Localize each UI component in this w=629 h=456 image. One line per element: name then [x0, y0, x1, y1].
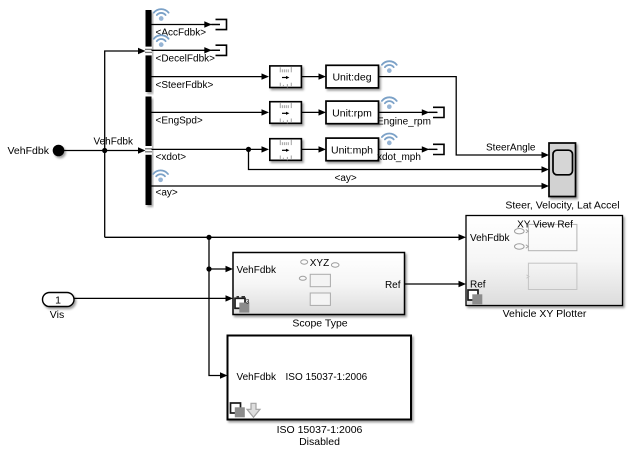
- svg-text:XY View Ref: XY View Ref: [517, 220, 573, 231]
- wire: junction down to ISO block input: [209, 269, 228, 379]
- unit conversion U1 Unit:deg: [326, 65, 379, 88]
- svg-text:VehFdbk: VehFdbk: [8, 145, 50, 157]
- wire: junction up to bus BS1 input: [105, 48, 146, 151]
- wire: Unit:rpm to terminator T3: [379, 109, 438, 115]
- svg-text:1: 1: [55, 295, 61, 307]
- wire: junction down to Scope Type input: [209, 237, 233, 272]
- inport 1 Vis: [43, 293, 75, 307]
- terminator T4: [429, 144, 444, 154]
- svg-text:Ref: Ref: [470, 279, 486, 290]
- svg-text:VehFdbk: VehFdbk: [470, 233, 510, 244]
- bus selector BS2 input port notch: [145, 146, 152, 155]
- ISO disabled-variant down arrow: [247, 403, 260, 417]
- svg-text:VehFdbk: VehFdbk: [94, 137, 134, 148]
- wifi badge on Unit:mph output: [382, 133, 397, 145]
- svg-text:Vis: Vis: [50, 309, 64, 321]
- svg-text:Unit:mph: Unit:mph: [331, 144, 373, 156]
- rate transition RT2: [270, 102, 302, 124]
- unit conversion U3 Unit:mph: [326, 138, 379, 161]
- wire: VehFdbk circle to bus BS2 input: [64, 147, 146, 153]
- scope block: Steer, Velocity, Lat Accel: [549, 143, 576, 197]
- junction on VehFdbk wire: [102, 148, 107, 153]
- unit conversion U2 Unit:rpm: [326, 101, 379, 124]
- subsystem: ISO 15037-1:2006 (disabled variant): [228, 336, 412, 420]
- wire: junction down to lower subsystems: [104, 151, 106, 238]
- svg-text:Scope Type: Scope Type: [292, 318, 347, 330]
- source node VehFdbk (black circle): [53, 145, 65, 157]
- wire: Unit:mph to terminator T4: [379, 146, 438, 152]
- svg-text:Disabled: Disabled: [299, 436, 340, 448]
- wifi badge on AccFdbk: [154, 9, 169, 21]
- wire: xdot branch to scope input 2: [249, 149, 550, 172]
- svg-text:SteerAngle: SteerAngle: [486, 142, 536, 153]
- wifi badge on Unit:rpm output: [382, 97, 397, 109]
- svg-text:Steer, Velocity, Lat Accel: Steer, Velocity, Lat Accel: [505, 200, 619, 212]
- wifi badge on Unit:deg output: [382, 61, 397, 73]
- wire: SteerFdbk from bus to rate transition RT1: [152, 73, 270, 79]
- wire: RT3 to Unit:mph: [302, 146, 326, 152]
- svg-text:<xdot>: <xdot>: [156, 152, 187, 163]
- Scope Type preview: XYZ and shapes: [299, 258, 339, 305]
- svg-text:Vehicle XY Plotter: Vehicle XY Plotter: [503, 308, 587, 320]
- svg-text:<DecelFdbk>: <DecelFdbk>: [156, 54, 216, 65]
- wifi badge on DecelFdbk: [154, 35, 169, 47]
- svg-text:Ref: Ref: [385, 280, 401, 291]
- wire: ay from bus to scope input 3: [152, 183, 550, 189]
- wire: DecelFdbk from bus to terminator T2: [152, 47, 221, 53]
- wire: Vis to Scope Type input 2: [74, 295, 233, 301]
- junction on plotter wire: [206, 235, 211, 240]
- Scope Type badge (bottom-left): [235, 297, 250, 313]
- svg-text:Unit:deg: Unit:deg: [332, 72, 371, 84]
- svg-text:ISO 15037-1:2006: ISO 15037-1:2006: [286, 372, 368, 383]
- svg-text:<SteerFdbk>: <SteerFdbk>: [156, 80, 214, 91]
- wire: RT2 to Unit:rpm: [302, 109, 326, 115]
- svg-text:VehFdbk: VehFdbk: [237, 372, 277, 383]
- junction on Scope Type branch: [206, 266, 211, 271]
- svg-text:Unit:rpm: Unit:rpm: [332, 107, 372, 119]
- svg-text:VehFdbk: VehFdbk: [237, 265, 277, 276]
- svg-text:<EngSpd>: <EngSpd>: [156, 116, 203, 127]
- wire: Unit:deg to scope input 1 (SteerAngle): [379, 77, 550, 159]
- terminator T2: [212, 45, 227, 55]
- terminator T1: [212, 19, 227, 29]
- svg-text:ISO 15037-1:2006: ISO 15037-1:2006: [277, 424, 363, 436]
- bus selector BS1 (top segment): [146, 10, 152, 92]
- wire: RT1 to Unit:deg: [302, 73, 326, 79]
- svg-text:XYZ: XYZ: [310, 258, 329, 269]
- ISO badge (bottom-left): [231, 403, 245, 417]
- wire: EngSpd from bus to rate transition RT2: [152, 109, 270, 115]
- svg-text:<ay>: <ay>: [335, 173, 357, 184]
- rate transition RT3: [270, 139, 302, 161]
- wifi badge on ay: [153, 170, 168, 182]
- bus selector BS2 (bottom segment): [146, 97, 152, 206]
- Vehicle XY Plotter badge (bottom-left): [468, 290, 482, 304]
- subsystem: Scope Type: [233, 253, 405, 315]
- svg-text:3: 3: [246, 299, 250, 306]
- rate transition RT1: [270, 66, 302, 88]
- bus selector BS1 input port notch: [145, 47, 152, 56]
- wire: xdot from bus to rate transition RT3: [152, 146, 270, 152]
- junction on xdot wire: [246, 147, 251, 152]
- svg-text:<AccFdbk>: <AccFdbk>: [156, 28, 207, 39]
- subsystem: Vehicle XY Plotter: [466, 216, 623, 306]
- Vehicle XY Plotter preview: XY View Ref: [515, 220, 577, 290]
- terminator T3: [429, 107, 444, 117]
- wire: AccFdbk from bus to terminator T1: [152, 21, 221, 27]
- svg-text:<ay>: <ay>: [156, 188, 178, 199]
- svg-text:xdot_mph: xdot_mph: [377, 152, 421, 163]
- wire: Scope Type Ref to Vehicle XY Plotter Ref: [405, 281, 467, 287]
- wire: junction to Vehicle XY Plotter VehFdbk input: [105, 234, 466, 240]
- svg-text:Engine_rpm: Engine_rpm: [377, 117, 431, 128]
